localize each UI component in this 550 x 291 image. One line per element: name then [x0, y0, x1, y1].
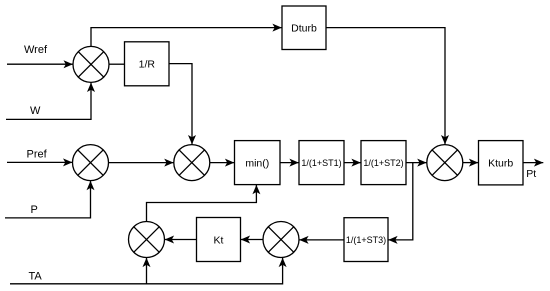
wire S1 to Dturb — [91, 28, 282, 47]
summing junction S4 — [427, 145, 463, 181]
wire TA input — [10, 258, 283, 284]
wire S1 to 1/R — [109, 63, 125, 65]
block 1/R — [125, 42, 170, 86]
wire S4 to Kturb — [463, 162, 479, 164]
block Kt — [197, 218, 241, 262]
svg-text:1/(1+ST2): 1/(1+ST2) — [363, 158, 403, 168]
summing junction S5 — [129, 222, 165, 258]
block Kturb — [479, 141, 524, 185]
wire TA branch to S5 — [146, 258, 148, 284]
wire W input — [6, 83, 91, 120]
block 1/(1+ST1) — [299, 141, 344, 185]
wire Kt to S5 — [165, 239, 197, 241]
wire S6 to Kt — [241, 239, 263, 241]
wire ST1 to ST2 — [344, 162, 361, 164]
summing junction S6 — [263, 222, 299, 258]
svg-text:Pt: Pt — [526, 168, 536, 180]
svg-text:P: P — [31, 204, 38, 216]
wire S2 to S3 — [109, 162, 174, 164]
block Dturb — [282, 6, 326, 50]
wire ST3 to S6 — [299, 239, 344, 241]
wire S5 to min() bottom — [147, 185, 257, 222]
svg-text:W: W — [30, 105, 41, 117]
wire ST2 branch to ST3 — [388, 163, 413, 240]
svg-text:1/(1+ST1): 1/(1+ST1) — [301, 158, 341, 168]
wire ST2 to S4 — [406, 162, 427, 164]
svg-text:min(): min() — [245, 157, 269, 169]
svg-text:Pref: Pref — [27, 149, 48, 161]
wire 1/R to S3 — [169, 64, 192, 145]
svg-text:Dturb: Dturb — [291, 23, 317, 35]
wire S3 to min() — [210, 162, 235, 164]
wire Pref input — [7, 161, 72, 163]
wire Wref input — [7, 63, 73, 65]
svg-text:1/(1+ST3): 1/(1+ST3) — [346, 235, 386, 245]
summing junction S3 — [174, 145, 210, 181]
wire Dturb to S4 — [326, 28, 445, 145]
svg-text:Kt: Kt — [214, 234, 224, 246]
block 1/(1+ST2) — [361, 141, 406, 185]
wire P input — [5, 181, 91, 218]
block min() — [235, 141, 281, 185]
wire Kturb output Pt — [523, 162, 543, 164]
svg-text:Wref: Wref — [24, 44, 48, 56]
block 1/(1+ST3) — [344, 218, 388, 262]
svg-text:Kturb: Kturb — [488, 157, 513, 169]
svg-text:TA: TA — [29, 270, 43, 282]
svg-text:1/R: 1/R — [139, 59, 156, 71]
wire min() to ST1 — [280, 162, 299, 164]
summing junction S1 (Wref-W) — [73, 46, 109, 82]
summing junction S2 (Pref-P) — [73, 145, 109, 181]
